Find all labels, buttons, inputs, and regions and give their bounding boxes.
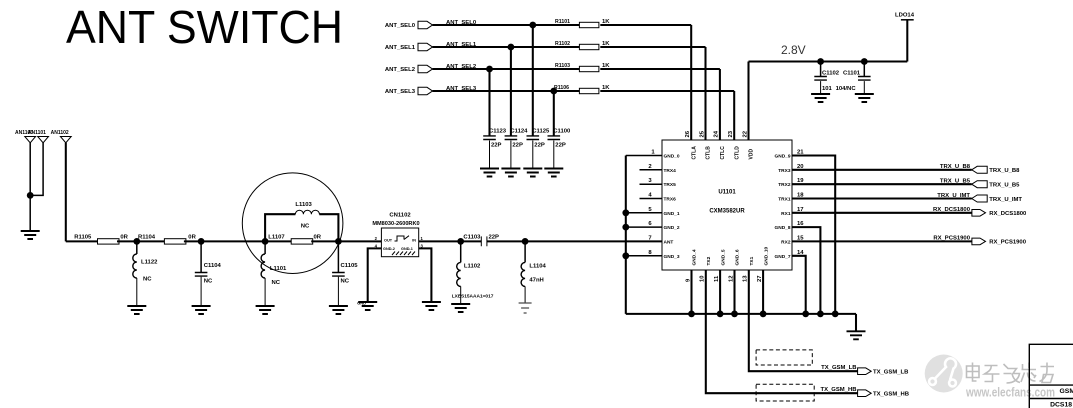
svg-text:ANT_SEL3: ANT_SEL3 <box>385 89 416 95</box>
svg-text:C1100: C1100 <box>553 128 571 134</box>
svg-text:TX_GSM_LB: TX_GSM_LB <box>873 370 908 376</box>
svg-text:RX1: RX1 <box>781 211 791 217</box>
svg-text:3: 3 <box>648 178 652 184</box>
svg-text:TRX2: TRX2 <box>778 182 791 188</box>
svg-text:AN1101: AN1101 <box>28 130 46 136</box>
svg-text:ANT_SEL1: ANT_SEL1 <box>446 42 477 48</box>
svg-text:NC: NC <box>272 280 281 286</box>
svg-text:RX2: RX2 <box>781 239 791 245</box>
svg-text:TRX_U_IMT: TRX_U_IMT <box>937 193 970 199</box>
svg-text:GND_5: GND_5 <box>720 249 726 265</box>
svg-text:2.8V: 2.8V <box>781 43 806 57</box>
svg-text:R1105: R1105 <box>74 235 92 241</box>
svg-text:CN1102: CN1102 <box>389 213 411 219</box>
svg-text:TX_GSM_HB: TX_GSM_HB <box>873 392 909 398</box>
svg-text:R1101: R1101 <box>555 19 570 25</box>
svg-text:R1102: R1102 <box>555 41 570 47</box>
svg-text:CTLD: CTLD <box>734 146 740 160</box>
svg-text:101: 101 <box>822 86 833 92</box>
svg-text:0R: 0R <box>314 235 322 241</box>
svg-text:ANT: ANT <box>664 239 674 245</box>
svg-text:11: 11 <box>714 275 720 282</box>
svg-text:ANT_SEL0: ANT_SEL0 <box>446 20 477 26</box>
svg-text:RX_PCS1900: RX_PCS1900 <box>933 236 970 242</box>
svg-text:24: 24 <box>714 130 720 137</box>
svg-text:22P: 22P <box>491 143 502 149</box>
svg-text:0R: 0R <box>120 235 128 241</box>
svg-text:AN1102: AN1102 <box>51 130 69 136</box>
svg-text:TX_GSM_LB: TX_GSM_LB <box>821 365 856 371</box>
svg-text:TRX_U_IMT: TRX_U_IMT <box>989 197 1022 203</box>
svg-text:C1105: C1105 <box>341 263 359 269</box>
svg-text:ANT_SEL2: ANT_SEL2 <box>385 67 416 73</box>
svg-text:CTLA: CTLA <box>691 146 697 160</box>
svg-text:13: 13 <box>743 275 749 282</box>
svg-text:GND_0: GND_0 <box>664 154 680 160</box>
svg-text:GSM: GSM <box>1060 388 1073 395</box>
svg-text:5: 5 <box>648 207 652 213</box>
svg-text:RX_DCS1800: RX_DCS1800 <box>933 207 971 213</box>
svg-text:GND-1: GND-1 <box>401 247 413 251</box>
svg-text:L1107: L1107 <box>268 235 285 241</box>
svg-text:CTLB: CTLB <box>706 146 712 160</box>
svg-text:22P: 22P <box>534 143 545 149</box>
svg-text:GND_7: GND_7 <box>775 254 791 260</box>
svg-text:1: 1 <box>651 150 655 156</box>
svg-text:104/NC: 104/NC <box>836 86 857 92</box>
svg-text:ANT_SEL1: ANT_SEL1 <box>385 45 416 51</box>
svg-text:4: 4 <box>648 193 652 199</box>
svg-text:8: 8 <box>648 250 652 256</box>
svg-text:1: 1 <box>421 236 424 241</box>
svg-text:25: 25 <box>699 130 705 137</box>
svg-text:TRX_U_B8: TRX_U_B8 <box>989 168 1020 174</box>
svg-text:TRX4: TRX4 <box>664 168 677 174</box>
svg-text:C1103: C1103 <box>463 234 481 240</box>
svg-text:2: 2 <box>648 164 652 170</box>
svg-text:RX_PCS1900: RX_PCS1900 <box>989 240 1026 246</box>
svg-text:GND_9: GND_9 <box>775 154 791 160</box>
svg-text:LDO14: LDO14 <box>895 13 915 19</box>
svg-text:GND-2: GND-2 <box>383 247 395 251</box>
svg-text:GND_8: GND_8 <box>775 225 791 231</box>
svg-text:IN: IN <box>412 239 416 243</box>
svg-text:ANT_SEL0: ANT_SEL0 <box>385 23 416 29</box>
svg-text:ANT SWITCH: ANT SWITCH <box>66 1 343 53</box>
svg-text:L1101: L1101 <box>270 266 287 272</box>
svg-text:ANT_SEL2: ANT_SEL2 <box>446 64 477 70</box>
svg-text:47nH: 47nH <box>529 277 543 283</box>
svg-text:GND_1: GND_1 <box>664 211 680 217</box>
svg-text:GND_6: GND_6 <box>735 249 741 265</box>
svg-text:TX2: TX2 <box>706 256 712 265</box>
svg-text:TRX_U_B8: TRX_U_B8 <box>940 164 971 170</box>
svg-text:GND_4: GND_4 <box>692 249 698 265</box>
svg-text:DCS18: DCS18 <box>1050 401 1072 408</box>
svg-text:LXES15AAA1=017: LXES15AAA1=017 <box>452 293 494 299</box>
svg-text:MM8030-2600RK0: MM8030-2600RK0 <box>372 221 419 227</box>
svg-text:TRX6: TRX6 <box>664 197 677 203</box>
svg-text:CXM3582UR: CXM3582UR <box>709 209 745 215</box>
svg-text:GND_10: GND_10 <box>763 247 769 266</box>
svg-text:R1104: R1104 <box>138 235 156 241</box>
svg-text:L1103: L1103 <box>295 202 312 208</box>
svg-text:TRX1: TRX1 <box>778 197 791 203</box>
svg-text:10: 10 <box>700 275 706 282</box>
svg-text:GND: GND <box>357 301 366 306</box>
svg-text:6: 6 <box>648 221 652 227</box>
svg-text:NC: NC <box>301 224 310 230</box>
svg-text:TRX5: TRX5 <box>664 182 677 188</box>
svg-text:VDD: VDD <box>749 149 755 160</box>
svg-text:TX_GSM_HB: TX_GSM_HB <box>820 387 856 393</box>
svg-text:23: 23 <box>728 130 734 137</box>
svg-text:TX1: TX1 <box>749 256 755 265</box>
svg-text:9: 9 <box>685 278 691 282</box>
svg-text:NC: NC <box>341 278 350 284</box>
svg-text:U1101: U1101 <box>718 190 736 196</box>
svg-text:CTLC: CTLC <box>720 146 726 160</box>
svg-text:0R: 0R <box>188 235 196 241</box>
svg-text:OUT: OUT <box>384 239 393 243</box>
svg-text:ANT_SEL3: ANT_SEL3 <box>446 86 477 92</box>
svg-text:C1101: C1101 <box>843 71 861 77</box>
svg-text:GND_3: GND_3 <box>664 254 680 260</box>
svg-text:L1104: L1104 <box>529 264 546 270</box>
svg-text:NC: NC <box>204 278 213 284</box>
svg-text:12: 12 <box>728 275 734 282</box>
svg-text:GND_2: GND_2 <box>664 225 680 231</box>
svg-text:TRX3: TRX3 <box>778 168 791 174</box>
svg-text:2: 2 <box>375 236 378 241</box>
svg-text:26: 26 <box>685 130 691 137</box>
svg-text:C1104: C1104 <box>204 263 222 269</box>
svg-text:L1122: L1122 <box>141 260 158 266</box>
svg-text:C1123: C1123 <box>489 128 507 134</box>
svg-text:TRX_U_B5: TRX_U_B5 <box>940 179 971 185</box>
svg-text:L1102: L1102 <box>464 264 481 270</box>
svg-text:22P: 22P <box>489 234 500 240</box>
svg-text:C1102: C1102 <box>822 71 840 77</box>
svg-text:www.elecfans.com: www.elecfans.com <box>965 386 1055 400</box>
svg-text:R1103: R1103 <box>555 63 570 69</box>
svg-text:NC: NC <box>143 277 152 283</box>
svg-text:27: 27 <box>757 275 763 282</box>
svg-text:22: 22 <box>742 130 748 137</box>
svg-text:RX_DCS1800: RX_DCS1800 <box>989 211 1027 217</box>
svg-text:C1125: C1125 <box>532 128 550 134</box>
svg-text:22P: 22P <box>512 143 523 149</box>
svg-text:C1124: C1124 <box>510 128 528 134</box>
svg-text:22P: 22P <box>555 143 566 149</box>
svg-text:TRX_U_B5: TRX_U_B5 <box>989 183 1020 189</box>
